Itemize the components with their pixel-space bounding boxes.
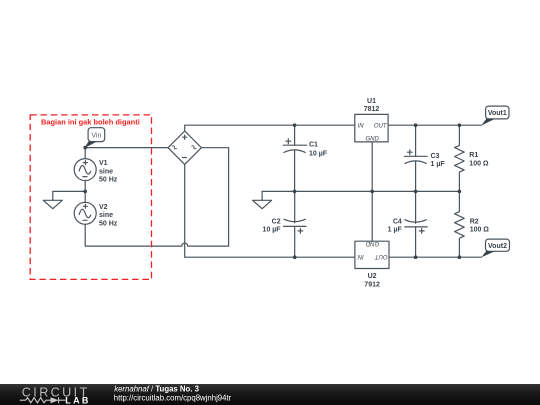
IC pin names — [357, 124, 388, 259]
footer bar — [0, 384, 540, 405]
svg-text:C3: C3 — [431, 153, 440, 160]
bridge ~ left — [172, 145, 176, 149]
svg-text:C2: C2 — [272, 218, 281, 225]
svg-text:Vout1: Vout1 — [488, 110, 507, 117]
svg-text:C1: C1 — [309, 141, 318, 148]
svg-text:V2: V2 — [99, 204, 108, 211]
svg-text:IN: IN — [358, 124, 365, 130]
svg-text:7912: 7912 — [364, 281, 380, 288]
svg-text:U2: U2 — [368, 273, 377, 280]
wire bottom rail right of U2 — [389, 256, 481, 258]
resistor R2 — [455, 191, 465, 257]
junction dots — [83, 123, 461, 259]
wire V1 top lead — [84, 148, 86, 159]
svg-text:R1: R1 — [469, 152, 478, 159]
IC U1 box — [355, 114, 388, 141]
flag Vin box — [88, 128, 105, 142]
logo diode triangle — [51, 397, 59, 403]
voltage source V1 — [74, 159, 96, 181]
wire middle ground rail — [262, 190, 459, 192]
svg-text:IN: IN — [357, 253, 364, 259]
wire top rail right of U1 — [388, 124, 481, 126]
svg-text:GND: GND — [365, 240, 379, 246]
wire V2 top lead — [84, 191, 86, 202]
schematic text labels — [91, 98, 507, 289]
wire V2 bottom to bridge right (with hop) — [85, 148, 228, 246]
wire U2 GND pin up — [371, 191, 373, 241]
bridge rectifier diamond — [168, 131, 201, 164]
IC U2 box — [355, 241, 389, 268]
svg-text:7812: 7812 — [364, 106, 380, 113]
svg-text:C4: C4 — [393, 218, 402, 225]
svg-text:10 µF: 10 µF — [263, 227, 282, 234]
svg-text:50 Hz: 50 Hz — [99, 177, 118, 184]
svg-text:1 µF: 1 µF — [388, 226, 403, 233]
svg-text:OUT: OUT — [374, 124, 388, 130]
svg-text:kernahnaf / Tugas No. 3: kernahnaf / Tugas No. 3 — [114, 385, 199, 394]
wire bridge bottom to bottom rail — [185, 164, 355, 257]
bridge + mark — [183, 135, 187, 139]
svg-text:LAB: LAB — [65, 395, 90, 405]
wire V1 bottom lead — [84, 181, 86, 192]
capacitor C4 — [405, 191, 428, 257]
voltage source V2 — [74, 202, 96, 224]
flag Vout1 box — [486, 106, 509, 119]
svg-text:100 Ω: 100 Ω — [469, 161, 489, 168]
flag Vout2 pointer — [481, 251, 494, 257]
wire U1 GND pin down — [371, 142, 373, 192]
wire bridge top to top rail — [185, 125, 355, 130]
flag Vout1 pointer — [481, 119, 494, 126]
resistor R1 — [455, 125, 465, 191]
svg-text:sine: sine — [99, 212, 113, 219]
wire Vin node to bridge left — [85, 147, 168, 149]
wire ground2 stub — [261, 191, 263, 200]
svg-text:R2: R2 — [470, 218, 479, 225]
flag pointers — [84, 119, 494, 258]
svg-text:sine: sine — [99, 168, 113, 175]
bridge ~ right — [192, 145, 196, 149]
svg-text:50 Hz: 50 Hz — [99, 220, 118, 227]
svg-text:100 Ω: 100 Ω — [470, 227, 490, 234]
svg-text:http://circuitlab.com/cpq8wjnh: http://circuitlab.com/cpq8wjnhj94tr — [114, 394, 232, 403]
flag Vin pointer — [84, 141, 96, 148]
svg-text:U1: U1 — [367, 98, 376, 105]
svg-text:GND: GND — [366, 136, 380, 142]
capacitor C2 — [284, 191, 307, 257]
ground symbol GND2 — [253, 200, 272, 208]
svg-text:10 µF: 10 µF — [309, 150, 328, 157]
flag Vout2 box — [486, 239, 510, 251]
svg-text:V1: V1 — [99, 160, 108, 167]
svg-text:Vout2: Vout2 — [488, 243, 507, 250]
svg-text:OUT: OUT — [374, 253, 388, 259]
logo resistor+diode squiggle — [20, 397, 66, 403]
svg-text:1 µF: 1 µF — [431, 161, 446, 168]
capacitor C3 — [404, 125, 427, 191]
wire ground1 stub — [53, 191, 85, 200]
capacitor C1 — [283, 125, 306, 191]
svg-text:Vin: Vin — [91, 132, 101, 139]
svg-text:Bagian ini gak boleh diganti: Bagian ini gak boleh diganti — [41, 117, 140, 126]
ground symbol GND1 — [43, 200, 62, 208]
bridge - mark — [182, 157, 186, 159]
red dashed restriction box — [30, 115, 151, 280]
